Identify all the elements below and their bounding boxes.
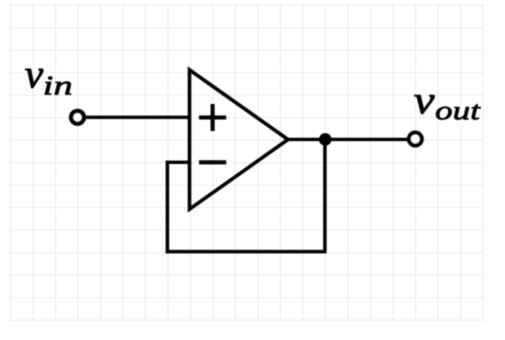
op-amp U1 xyxy=(190,70,289,209)
terminal v_out xyxy=(409,133,422,146)
node output junction xyxy=(319,133,332,146)
wire output xyxy=(287,138,409,141)
label v_out xyxy=(414,95,480,119)
wire input to non-inverting pin xyxy=(84,116,190,119)
label v_in xyxy=(25,69,71,95)
wire feedback: left vertical up xyxy=(166,161,170,254)
op-amp minus marker (inverting input) xyxy=(199,160,226,164)
terminal v_in xyxy=(71,111,84,124)
wire feedback: junction down xyxy=(323,139,327,251)
wire feedback to inverting pin xyxy=(166,161,190,164)
op-amp plus marker (non-inverting input) xyxy=(199,104,226,131)
wire feedback: bottom horizontal xyxy=(166,250,327,254)
